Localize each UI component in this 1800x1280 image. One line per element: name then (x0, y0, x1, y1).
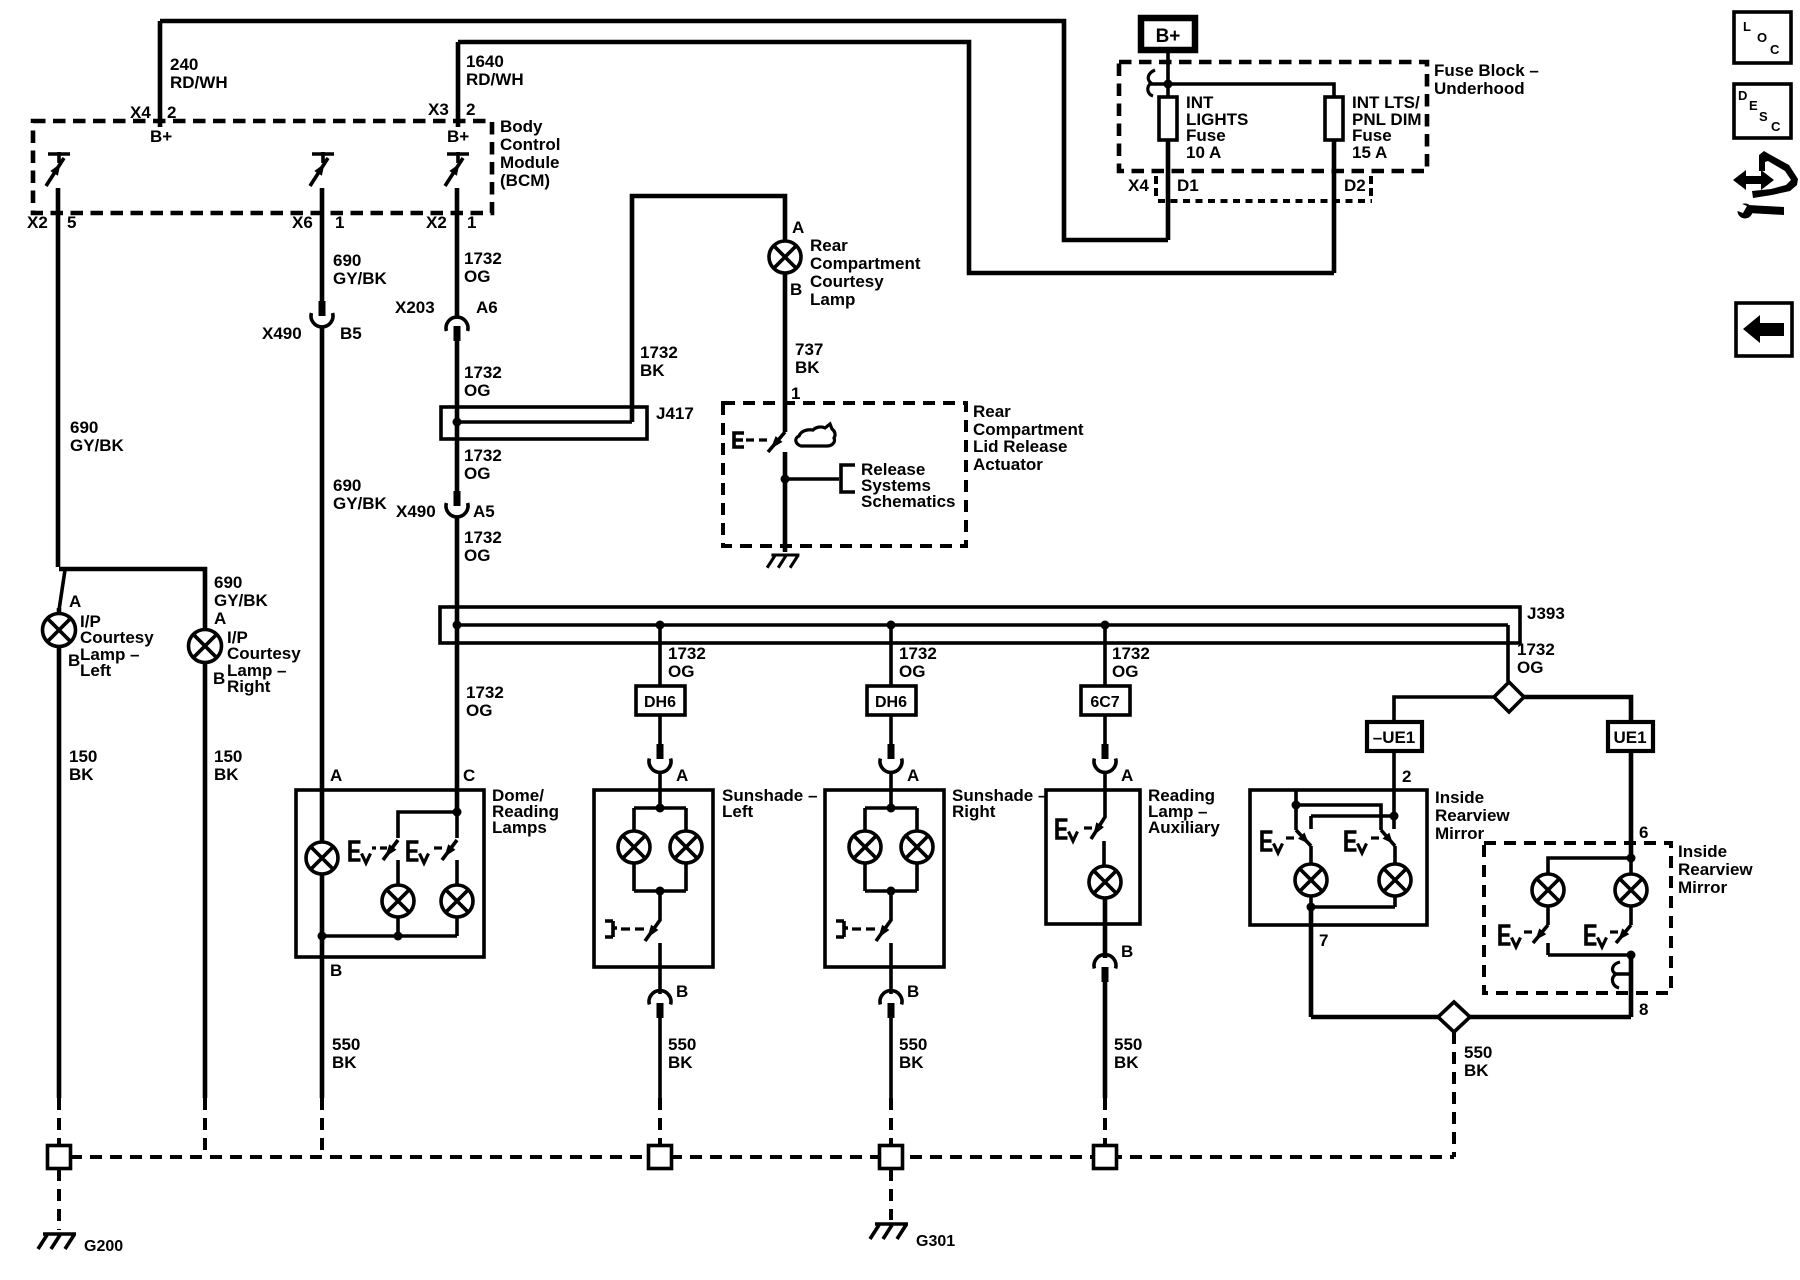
svg-text:1: 1 (335, 213, 344, 232)
BCM driver switch 2 (312, 152, 334, 163)
svg-text:–UE1: –UE1 (1373, 728, 1416, 747)
svg-text:Inside: Inside (1435, 788, 1484, 807)
dashed drop to G200 (57, 1169, 61, 1230)
dashed mirror switch left (1500, 926, 1521, 947)
svg-text:B: B (68, 651, 80, 670)
svg-text:GY/BK: GY/BK (70, 436, 125, 455)
svg-text:A5: A5 (473, 502, 495, 521)
svg-text:Right: Right (952, 802, 996, 821)
ground below lid release actuator (767, 555, 799, 568)
sunshade left pin B connector (658, 967, 662, 994)
wire 150 BK left (57, 646, 62, 1098)
svg-text:Rearview: Rearview (1678, 860, 1753, 879)
splice J417 (441, 407, 647, 439)
svg-text:B+: B+ (150, 127, 172, 146)
svg-text:DH6: DH6 (644, 694, 676, 711)
svg-text:1732: 1732 (464, 528, 502, 547)
dome switch 1 (350, 842, 371, 863)
ground bus square sunshade left (649, 1146, 672, 1169)
svg-text:690: 690 (214, 573, 242, 592)
svg-text:Rear: Rear (810, 236, 848, 255)
svg-text:A: A (792, 218, 804, 237)
svg-text:D1: D1 (1177, 176, 1199, 195)
svg-text:1732: 1732 (464, 363, 502, 382)
svg-text:G301: G301 (916, 1233, 955, 1250)
wire 150 BK right (203, 662, 208, 1098)
wire 240 RD/WH drop into BCM X4-2 (158, 21, 163, 127)
wire 690 GY/BK from BCM X2-5 (56, 188, 61, 567)
svg-text:BK: BK (640, 361, 665, 380)
svg-text:Left: Left (80, 661, 112, 680)
dashed ground bus (70, 1155, 1454, 1159)
sunshade left switch (645, 891, 660, 941)
svg-text:2: 2 (466, 100, 475, 119)
sunshade right internal feed (865, 790, 917, 831)
sunshade left lamp 2 (670, 831, 702, 863)
wire pin 7 to splice diamond (1311, 1015, 1438, 1020)
mirror switch right (1346, 832, 1367, 853)
svg-text:Mirror: Mirror (1435, 824, 1485, 843)
connector X490 B5 (319, 301, 326, 316)
mirror lamp right (1393, 846, 1397, 864)
svg-text:GY/BK: GY/BK (333, 494, 388, 513)
svg-text:A: A (907, 766, 919, 785)
wire pin 8 to splice diamond (1470, 1015, 1631, 1020)
svg-text:C: C (1771, 119, 1781, 134)
svg-text:C: C (463, 766, 475, 785)
svg-text:RD/WH: RD/WH (170, 73, 228, 92)
svg-text:O: O (1757, 30, 1767, 45)
fuse block underhood dashed box (1119, 62, 1427, 171)
svg-text:D2: D2 (1344, 176, 1366, 195)
sunshade left internal feed (634, 790, 686, 831)
wire 1640 RD/WH drop into BCM X3-2 (456, 42, 461, 127)
svg-text:Right: Right (227, 677, 271, 696)
mirror switch left (1262, 832, 1283, 853)
svg-text:BK: BK (795, 358, 820, 377)
svg-text:150: 150 (69, 747, 97, 766)
svg-text:B: B (790, 280, 802, 299)
svg-text:X2: X2 (426, 213, 447, 232)
battery positive B+ box (1141, 18, 1195, 50)
svg-text:B: B (1121, 942, 1133, 961)
dome lamp 2 (396, 860, 400, 885)
ground G301 (870, 1224, 908, 1239)
svg-text:Module: Module (500, 153, 560, 172)
svg-text:BK: BK (214, 765, 239, 784)
svg-text:B+: B+ (447, 127, 469, 146)
svg-text:1732: 1732 (466, 683, 504, 702)
inline connector to reading lamp pin A (1102, 744, 1109, 759)
wire 1732 OG from BCM X2-1 (455, 188, 460, 318)
svg-text:Actuator: Actuator (973, 455, 1043, 474)
icon LOC box (1734, 12, 1791, 63)
svg-text:G200: G200 (84, 1238, 123, 1255)
wire 1732 OG branch to reading lamp auxiliary (1103, 625, 1107, 686)
inline connector to sunshade left pin A (657, 744, 664, 759)
svg-text:Mirror: Mirror (1678, 878, 1728, 897)
wire branch to right IP lamp (59, 569, 205, 630)
svg-text:(BCM): (BCM) (500, 171, 550, 190)
wire fuse 1 output D1 (1166, 140, 1171, 240)
dome reading lamps box (296, 790, 484, 957)
svg-text:OG: OG (464, 464, 490, 483)
svg-text:B5: B5 (340, 324, 362, 343)
wire 1640 RD/WH run (458, 42, 1334, 273)
splice diamond 1732 OG (1494, 682, 1524, 712)
svg-text:1: 1 (467, 213, 476, 232)
fuse INT LIGHTS 10A (1159, 97, 1177, 140)
svg-text:Inside: Inside (1678, 842, 1727, 861)
sunshade right lamp 1 (849, 831, 881, 863)
sunshade right switch (876, 891, 891, 941)
sunshade right pin B connector (889, 967, 893, 994)
sunshade right lamp 2 (901, 831, 933, 863)
svg-text:1732: 1732 (1112, 644, 1150, 663)
node splice in fuse block (1164, 80, 1173, 89)
wire dome lamp1 through to B (320, 874, 325, 1098)
svg-text:550: 550 (332, 1035, 360, 1054)
svg-text:B+: B+ (1156, 26, 1181, 47)
svg-text:GY/BK: GY/BK (333, 269, 388, 288)
svg-text:Lid Release: Lid Release (973, 437, 1068, 456)
svg-text:RD/WH: RD/WH (466, 70, 524, 89)
svg-text:7: 7 (1319, 931, 1328, 950)
svg-text:Underhood: Underhood (1434, 79, 1525, 98)
svg-text:BK: BK (69, 765, 94, 784)
svg-text:X203: X203 (395, 298, 435, 317)
svg-text:Fuse Block –: Fuse Block – (1434, 61, 1539, 80)
node branch sunshade left (656, 621, 665, 630)
svg-text:DH6: DH6 (875, 694, 907, 711)
dome lamp 1 (306, 842, 338, 874)
svg-text:737: 737 (795, 340, 823, 359)
svg-text:B: B (907, 982, 919, 1001)
wire 737 BK (783, 273, 788, 432)
svg-text:Body: Body (500, 117, 543, 136)
icon navigation arrows and wrench (1733, 170, 1774, 190)
svg-text:OG: OG (899, 662, 925, 681)
trunk lid icon (796, 424, 835, 446)
wire 1732 BK loop to rear compartment courtesy lamp (632, 196, 785, 422)
splice J393 (440, 607, 1520, 643)
wire 1732 OG branch to sunshade right (889, 625, 893, 686)
wire -UE1 to inside rearview mirror pin 2 (1392, 751, 1396, 816)
svg-text:A: A (1121, 766, 1133, 785)
reading lamp auxiliary box (1046, 790, 1140, 924)
svg-text:1732: 1732 (464, 446, 502, 465)
svg-text:A: A (214, 609, 226, 628)
svg-text:BK: BK (1464, 1061, 1489, 1080)
BCM driver switch 1 (48, 152, 70, 163)
svg-text:GY/BK: GY/BK (214, 591, 269, 610)
splice diamond 550 BK (1438, 1002, 1470, 1032)
dome feed bracket C to switches (398, 812, 457, 838)
dashed drop dome B to bus (320, 1098, 324, 1157)
svg-text:B: B (676, 982, 688, 1001)
svg-text:5: 5 (67, 213, 76, 232)
inside rearview mirror dashed box (1484, 843, 1671, 993)
sunshade left lamp 1 (618, 831, 650, 863)
svg-text:OG: OG (466, 701, 492, 720)
svg-text:A: A (676, 766, 688, 785)
ground bus square G200 (48, 1146, 71, 1169)
wire diamond to -UE1 (1394, 697, 1494, 722)
svg-text:X6: X6 (292, 213, 313, 232)
dome switch 2 (408, 842, 429, 863)
svg-text:240: 240 (170, 55, 198, 74)
mirror lamp left (1309, 846, 1313, 864)
BCM driver switch 3 (447, 152, 469, 163)
svg-text:1732: 1732 (1517, 640, 1555, 659)
svg-text:6C7: 6C7 (1090, 694, 1119, 711)
mirror bottom bus to pin 7 (1311, 905, 1395, 909)
svg-text:OG: OG (464, 267, 490, 286)
dashed drop to G301 (889, 1169, 893, 1220)
inside rearview mirror box (1250, 790, 1427, 925)
svg-text:UE1: UE1 (1613, 728, 1646, 747)
svg-text:BK: BK (668, 1053, 693, 1072)
connector code DH6 left (636, 686, 685, 715)
sunshade right lamp join (865, 863, 917, 891)
sunshade left lamp join (634, 863, 686, 891)
ground G200 (38, 1234, 76, 1249)
clip hook at pin 8 (1612, 962, 1620, 988)
mirror internal feed brackets (1294, 790, 1298, 830)
dashed mirror bottom rail to pin 8 (1548, 953, 1631, 957)
svg-text:B: B (330, 961, 342, 980)
lid release switch (768, 432, 785, 452)
svg-text:Control: Control (500, 135, 560, 154)
svg-text:BK: BK (332, 1053, 357, 1072)
svg-text:J393: J393 (1527, 604, 1565, 623)
ground bus square sunshade right (880, 1146, 903, 1169)
svg-text:E: E (1749, 98, 1758, 113)
svg-text:D: D (1738, 88, 1747, 103)
svg-text:690: 690 (333, 476, 361, 495)
svg-text:550: 550 (668, 1035, 696, 1054)
svg-text:X490: X490 (396, 502, 436, 521)
svg-text:Rearview: Rearview (1435, 806, 1510, 825)
wire jog into left IP lamp (59, 570, 65, 610)
wire fuse 2 output D2 (1332, 140, 1337, 273)
wire 690 GY/BK from BCM X6-1 (320, 188, 325, 301)
dashed mirror switch right (1586, 926, 1607, 947)
svg-text:1732: 1732 (640, 343, 678, 362)
svg-text:OG: OG (464, 546, 490, 565)
connector UE1 (1608, 722, 1653, 751)
svg-text:Schematics: Schematics (861, 492, 956, 511)
wire diamond to UE1 (1524, 697, 1631, 722)
dashed drop left lamp to G200 bus (57, 1098, 61, 1146)
sunshade right box (825, 790, 944, 967)
svg-text:150: 150 (214, 747, 242, 766)
svg-text:6: 6 (1639, 823, 1648, 842)
fuse INT LTS/PNL DIM 15A (1325, 97, 1343, 140)
wire to release systems schematics (783, 452, 788, 552)
svg-text:690: 690 (70, 418, 98, 437)
wire UE1 to dashed mirror pin 6 (1629, 751, 1634, 858)
svg-text:S: S (1759, 109, 1768, 124)
wire B+ feed 240 RD/WH top run (160, 21, 1168, 240)
svg-text:BK: BK (899, 1053, 924, 1072)
svg-text:B: B (213, 669, 225, 688)
svg-text:X490: X490 (262, 324, 302, 343)
connector X490 A5 (454, 491, 461, 506)
svg-text:Courtesy: Courtesy (810, 272, 884, 291)
svg-text:Compartment: Compartment (810, 254, 921, 273)
svg-text:L: L (1743, 19, 1751, 34)
svg-text:C: C (1770, 42, 1780, 57)
dashed drop diamond to ground bus (1452, 1032, 1456, 1157)
svg-text:X2: X2 (27, 213, 48, 232)
reading lamp bulb (1102, 841, 1106, 866)
dome lamp 3 (455, 860, 459, 885)
wire J393 right end to splice diamond (1506, 625, 1510, 682)
dashed drop right lamp to bus (203, 1098, 207, 1157)
rear compartment lid release actuator dashed box (723, 403, 966, 546)
svg-text:BK: BK (1114, 1053, 1139, 1072)
svg-text:Rear: Rear (973, 402, 1011, 421)
wire B+ into fuse block (1166, 50, 1170, 97)
node at 1732 OG main (453, 621, 462, 630)
body control module BCM dashed box (33, 121, 492, 213)
svg-text:1732: 1732 (668, 644, 706, 663)
wire 1732 OG down through J393 to dome lamps C (455, 517, 460, 812)
wire 690 GY/BK to dome lamps A (320, 327, 325, 842)
svg-text:1640: 1640 (466, 52, 504, 71)
svg-text:1: 1 (791, 384, 800, 403)
svg-text:OG: OG (1112, 662, 1138, 681)
node branch reading lamp (1101, 621, 1110, 630)
svg-text:690: 690 (333, 251, 361, 270)
svg-text:15 A: 15 A (1352, 143, 1387, 162)
svg-text:OG: OG (464, 381, 490, 400)
svg-text:X3: X3 (428, 100, 449, 119)
svg-text:550: 550 (1464, 1043, 1492, 1062)
svg-text:1732: 1732 (464, 249, 502, 268)
svg-text:A6: A6 (476, 298, 498, 317)
connector strip X4 D1 D2 (1154, 176, 1158, 196)
svg-text:Auxiliary: Auxiliary (1148, 818, 1220, 837)
connector -UE1 (1367, 722, 1422, 751)
svg-text:550: 550 (899, 1035, 927, 1054)
inline connector to sunshade right pin A (888, 744, 895, 759)
sunshade left box (594, 790, 713, 967)
svg-text:1732: 1732 (899, 644, 937, 663)
icon back arrow box (1736, 303, 1792, 356)
reading lamp switch (1091, 790, 1105, 839)
svg-text:A: A (69, 592, 81, 611)
wire fuse bus to second fuse (1168, 84, 1334, 97)
connector X203 A6 (446, 317, 468, 331)
svg-text:A: A (330, 766, 342, 785)
wire 1732 OG branch to sunshade left (658, 625, 662, 686)
svg-text:J417: J417 (656, 404, 694, 423)
svg-text:10 A: 10 A (1186, 143, 1221, 162)
wire 1732 OG to J417 and X490 A5 (455, 341, 460, 491)
svg-text:8: 8 (1639, 1000, 1648, 1019)
ground bus square reading lamp (1094, 1146, 1117, 1169)
svg-text:X4: X4 (1128, 176, 1149, 195)
svg-text:OG: OG (668, 662, 694, 681)
connector code DH6 right (867, 686, 916, 715)
icon DESC box (1734, 84, 1791, 138)
svg-text:OG: OG (1517, 658, 1543, 677)
dashed mirror lamp right (1629, 858, 1633, 874)
dashed mirror feed (1627, 854, 1636, 863)
svg-text:Lamp: Lamp (810, 290, 855, 309)
connector code 6C7 (1081, 686, 1130, 715)
svg-text:2: 2 (1402, 767, 1411, 786)
svg-text:550: 550 (1114, 1035, 1142, 1054)
clip hook at B+ entry (1148, 70, 1155, 96)
dome bottom bus (322, 934, 457, 938)
dashed mirror lamp left (1532, 874, 1564, 906)
svg-text:Left: Left (722, 802, 754, 821)
node branch sunshade right (887, 621, 896, 630)
svg-text:Lamps: Lamps (492, 818, 547, 837)
